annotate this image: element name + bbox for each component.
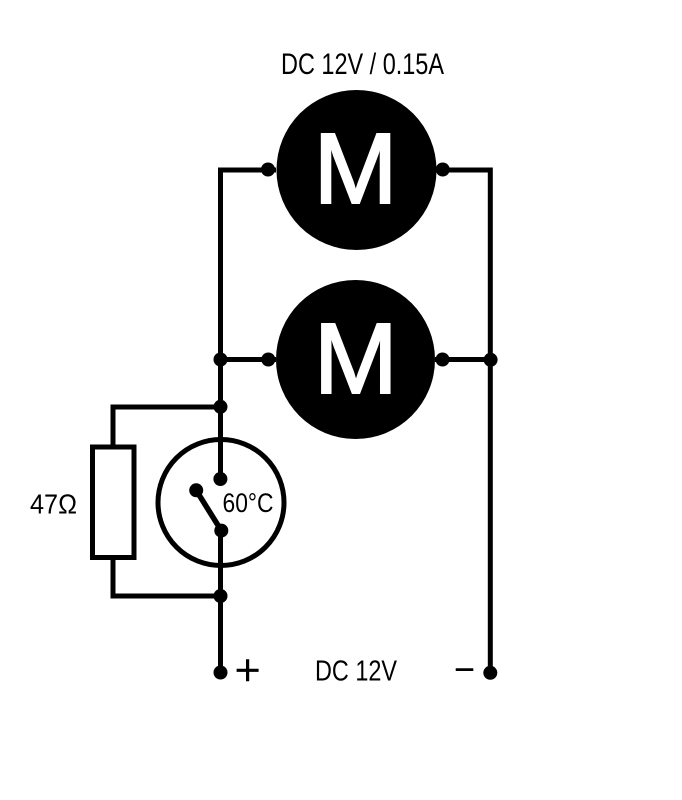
- node: motor M1 left terminal: [261, 163, 275, 177]
- wire: motor M2 left terminal branch: [221, 357, 277, 362]
- svg-text:DC 12V / 0.15A: DC 12V / 0.15A: [281, 48, 444, 81]
- node: motor M2 right terminal: [436, 353, 450, 367]
- node: left bus junction at resistor top branch: [214, 400, 228, 414]
- symbol: − polarity mark: [456, 668, 474, 671]
- wire: left bus top corner to motor M1 left terminal: [221, 170, 277, 479]
- svg-text:M: M: [314, 303, 398, 415]
- resistor R1 47Ω body: [93, 447, 135, 558]
- node: − supply terminal: [483, 666, 497, 680]
- symbol: + polarity mark: [237, 659, 259, 681]
- node: motor M1 right terminal: [436, 163, 450, 177]
- svg-text:60°C: 60°C: [223, 488, 274, 518]
- wire: motor M2 right terminal branch: [435, 357, 490, 362]
- svg-text:47Ω: 47Ω: [30, 489, 77, 520]
- node: left bus junction at resistor bottom branch: [214, 589, 228, 603]
- wire: resistor R1 top branch: [113, 407, 221, 447]
- svg-text:M: M: [314, 113, 398, 225]
- node: right bus junction at motor M2: [484, 353, 498, 367]
- node: thermal switch moving contact (bottom): [214, 524, 228, 538]
- node: motor M2 left terminal: [261, 353, 275, 367]
- wire: resistor R1 bottom branch: [113, 558, 221, 597]
- node: left bus junction at motor M2: [214, 353, 228, 367]
- thermal switch TH1 60°C body: [158, 440, 284, 566]
- svg-text:DC 12V: DC 12V: [315, 656, 398, 688]
- wire: lower left bus from switch to + terminal: [218, 531, 223, 673]
- node: thermal switch blade pivot (floating): [189, 483, 203, 497]
- node: + supply terminal: [214, 666, 228, 680]
- node: thermal switch fixed contact (top): [213, 472, 227, 486]
- motor M1 (top fan motor): [277, 90, 437, 250]
- motor M2 (bottom fan motor): [276, 280, 435, 439]
- wire: thermal switch blade (open contact): [196, 490, 221, 530]
- wire: motor M1 right terminal to right bus top corner: [437, 170, 490, 673]
